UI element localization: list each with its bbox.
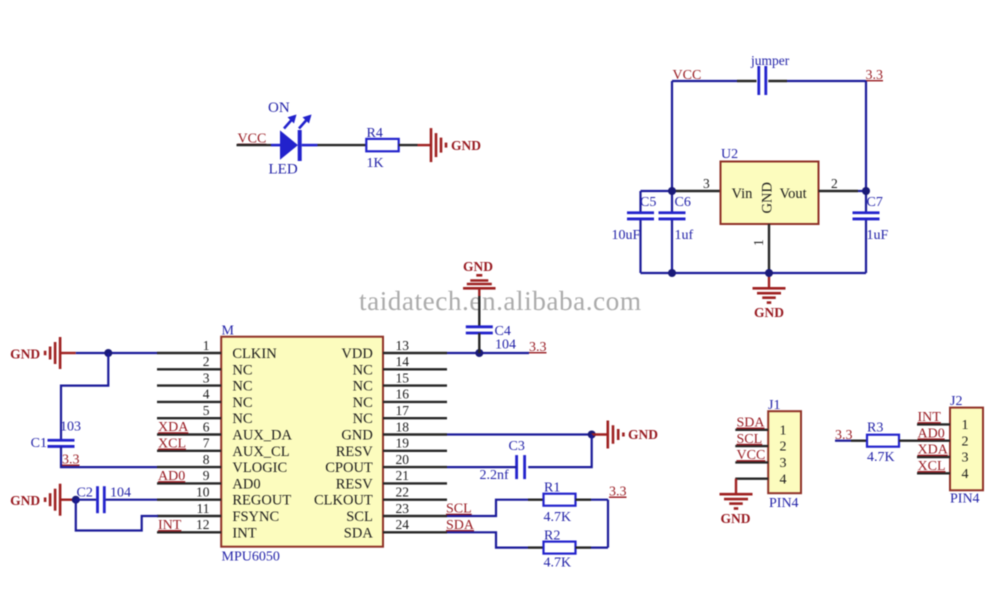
svg-text:23: 23 — [396, 501, 410, 516]
svg-text:GND: GND — [754, 305, 784, 320]
svg-text:4.7K: 4.7K — [867, 450, 895, 465]
svg-text:SCL: SCL — [737, 432, 763, 447]
svg-text:RESV: RESV — [336, 444, 374, 460]
svg-text:16: 16 — [396, 387, 410, 402]
svg-text:3: 3 — [703, 176, 710, 191]
svg-text:MPU6050: MPU6050 — [222, 550, 280, 565]
svg-text:RESV: RESV — [336, 476, 374, 492]
svg-text:13: 13 — [396, 338, 410, 353]
svg-text:CLKOUT: CLKOUT — [314, 493, 373, 509]
svg-text:SDA: SDA — [446, 518, 475, 533]
svg-text:3.3: 3.3 — [609, 485, 627, 500]
svg-text:NC: NC — [353, 362, 373, 378]
svg-text:GND: GND — [463, 259, 493, 274]
svg-text:R3: R3 — [867, 421, 883, 436]
svg-text:4: 4 — [780, 472, 787, 487]
svg-text:J2: J2 — [950, 394, 962, 409]
svg-text:INT: INT — [918, 410, 942, 425]
svg-text:21: 21 — [396, 468, 410, 483]
svg-text:R1: R1 — [544, 481, 560, 496]
svg-text:2: 2 — [831, 176, 838, 191]
svg-text:NC: NC — [232, 411, 252, 427]
svg-text:1: 1 — [962, 418, 969, 433]
svg-text:1K: 1K — [367, 156, 384, 171]
svg-text:24: 24 — [396, 517, 410, 532]
svg-text:C6: C6 — [675, 195, 691, 210]
svg-text:PIN4: PIN4 — [950, 491, 980, 506]
svg-text:4: 4 — [962, 467, 969, 482]
svg-text:C3: C3 — [509, 439, 525, 454]
svg-text:AUX_CL: AUX_CL — [232, 444, 289, 460]
svg-text:LED: LED — [269, 162, 298, 178]
svg-text:7: 7 — [203, 436, 210, 451]
svg-text:18: 18 — [396, 419, 410, 434]
svg-text:NC: NC — [353, 411, 373, 427]
svg-text:NC: NC — [232, 362, 252, 378]
svg-text:GND: GND — [760, 182, 776, 213]
svg-text:3: 3 — [962, 451, 969, 466]
svg-text:9: 9 — [203, 468, 210, 483]
svg-text:17: 17 — [396, 403, 410, 418]
svg-text:2.2nf: 2.2nf — [480, 468, 510, 483]
svg-text:20: 20 — [396, 452, 410, 467]
svg-text:22: 22 — [396, 485, 410, 500]
svg-text:2: 2 — [780, 440, 787, 455]
svg-text:C2: C2 — [77, 485, 93, 500]
svg-text:GND: GND — [10, 493, 40, 508]
svg-text:CLKIN: CLKIN — [232, 346, 277, 362]
svg-text:4: 4 — [203, 387, 210, 402]
svg-text:VCC: VCC — [737, 448, 766, 463]
svg-text:SCL: SCL — [446, 502, 472, 517]
svg-text:ON: ON — [268, 100, 290, 116]
svg-text:Vin: Vin — [732, 186, 754, 202]
svg-text:J1: J1 — [768, 398, 780, 413]
svg-text:8: 8 — [203, 452, 210, 467]
svg-text:Vout: Vout — [780, 186, 807, 202]
svg-text:U2: U2 — [721, 147, 738, 162]
svg-text:3: 3 — [203, 370, 210, 385]
svg-text:NC: NC — [353, 395, 373, 411]
svg-text:2: 2 — [962, 434, 969, 449]
svg-text:AD0: AD0 — [158, 469, 185, 484]
svg-text:C1: C1 — [31, 436, 47, 451]
svg-text:104: 104 — [495, 338, 516, 353]
svg-text:VLOGIC: VLOGIC — [232, 460, 287, 476]
svg-text:XCL: XCL — [918, 459, 946, 474]
svg-text:3.3: 3.3 — [529, 340, 547, 355]
svg-text:AUX_DA: AUX_DA — [232, 428, 292, 444]
svg-text:1: 1 — [203, 338, 210, 353]
svg-text:12: 12 — [196, 517, 210, 532]
svg-text:FSYNC: FSYNC — [232, 509, 279, 525]
svg-text:SCL: SCL — [346, 509, 373, 525]
svg-text:AD0: AD0 — [232, 476, 260, 492]
svg-text:C5: C5 — [640, 195, 656, 210]
svg-text:3.3: 3.3 — [62, 453, 80, 468]
svg-text:2: 2 — [203, 354, 210, 369]
svg-text:SDA: SDA — [344, 525, 374, 541]
svg-text:C7: C7 — [867, 195, 883, 210]
svg-text:VDD: VDD — [341, 346, 372, 362]
svg-text:4.7K: 4.7K — [544, 510, 572, 525]
svg-text:5: 5 — [203, 403, 210, 418]
svg-text:NC: NC — [232, 395, 252, 411]
svg-text:GND: GND — [10, 346, 40, 361]
svg-text:1: 1 — [751, 239, 766, 246]
svg-text:XDA: XDA — [918, 443, 949, 458]
svg-text:3.3: 3.3 — [866, 68, 884, 83]
svg-text:4.7K: 4.7K — [544, 556, 572, 571]
svg-text:15: 15 — [396, 370, 410, 385]
svg-text:1uF: 1uF — [867, 228, 889, 243]
svg-text:1uf: 1uf — [675, 228, 694, 243]
svg-text:GND: GND — [628, 427, 658, 442]
svg-text:XDA: XDA — [158, 420, 189, 435]
svg-text:AD0: AD0 — [918, 426, 945, 441]
svg-text:104: 104 — [110, 485, 131, 500]
svg-text:GND: GND — [451, 138, 481, 153]
svg-text:10: 10 — [196, 485, 210, 500]
svg-text:GND: GND — [721, 511, 751, 526]
svg-text:PIN4: PIN4 — [769, 496, 799, 511]
svg-text:103: 103 — [60, 420, 81, 435]
svg-text:GND: GND — [341, 428, 372, 444]
svg-text:INT: INT — [232, 525, 256, 541]
svg-text:1: 1 — [780, 423, 787, 438]
svg-text:NC: NC — [353, 379, 373, 395]
svg-text:M: M — [222, 324, 235, 339]
svg-text:NC: NC — [232, 379, 252, 395]
svg-text:REGOUT: REGOUT — [232, 493, 291, 509]
svg-text:14: 14 — [396, 354, 410, 369]
svg-text:jumper: jumper — [750, 53, 790, 68]
svg-text:11: 11 — [197, 501, 210, 516]
svg-text:6: 6 — [203, 419, 210, 434]
svg-text:XCL: XCL — [158, 437, 186, 452]
svg-text:INT: INT — [158, 518, 182, 533]
svg-text:SDA: SDA — [737, 416, 766, 431]
svg-text:taidatech.en.alibaba.com: taidatech.en.alibaba.com — [359, 286, 642, 316]
svg-text:R2: R2 — [544, 528, 560, 543]
svg-text:3: 3 — [780, 456, 787, 471]
svg-text:R4: R4 — [367, 126, 383, 141]
svg-text:CPOUT: CPOUT — [325, 460, 373, 476]
svg-text:10uF: 10uF — [612, 228, 641, 243]
svg-text:19: 19 — [396, 436, 410, 451]
